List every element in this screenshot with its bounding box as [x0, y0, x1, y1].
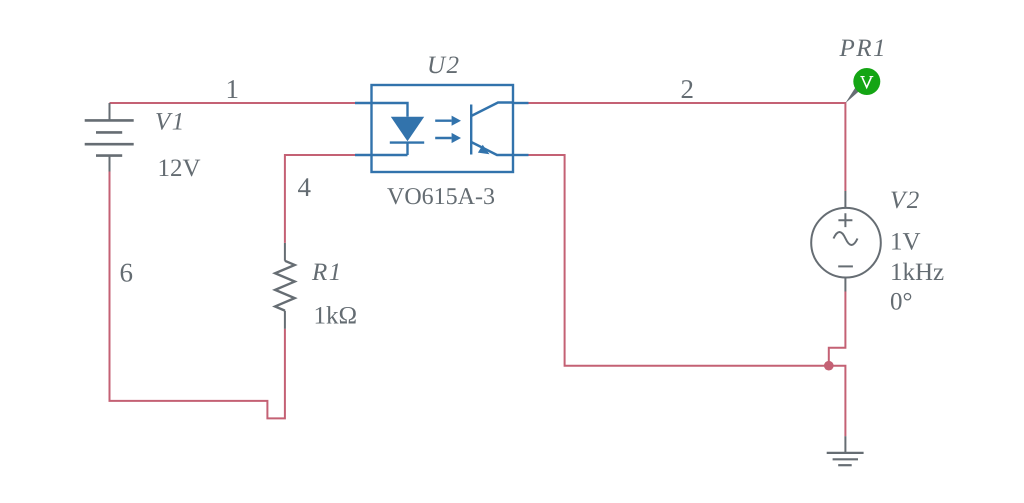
svg-text:0°: 0°	[890, 289, 913, 316]
svg-text:V2: V2	[890, 187, 921, 214]
U2 phototransistor collector	[471, 103, 513, 117]
source V2 bottom stem	[844, 278, 846, 292]
wire net 4 (R1 top to U2 pin 4)	[285, 155, 355, 243]
svg-text:1kHz: 1kHz	[890, 259, 944, 286]
svg-text:6: 6	[120, 258, 134, 288]
junction	[824, 361, 834, 371]
U2 light arrow 1	[435, 116, 461, 126]
svg-text:4: 4	[298, 172, 312, 202]
source V2 top stem	[844, 191, 846, 209]
svg-text:1kΩ: 1kΩ	[314, 303, 358, 330]
ground	[827, 436, 864, 465]
U2 LED anode lead	[372, 103, 408, 117]
svg-text:R1: R1	[311, 259, 343, 286]
U2 LED cathode bar	[390, 141, 424, 143]
svg-text:VO615A-3: VO615A-3	[387, 184, 495, 210]
wire net 0 (U2 emitter pin to junction)	[529, 155, 829, 366]
V2 minus sign	[838, 265, 853, 267]
U2 LED triangle	[391, 117, 424, 141]
svg-text:12V: 12V	[158, 155, 201, 182]
resistor R1	[275, 243, 295, 329]
svg-text:PR1: PR1	[839, 35, 888, 62]
svg-text:U2: U2	[427, 52, 461, 79]
svg-text:1V: 1V	[890, 229, 921, 256]
U2 phototransistor base bar	[470, 105, 472, 155]
U2 pin stubs	[355, 103, 529, 155]
svg-text:V1: V1	[155, 109, 186, 136]
wire net 0 (junction to ground)	[829, 366, 846, 437]
wire net 1 (battery V1 top to U2 pin 1)	[110, 102, 356, 104]
U2 light arrow 2	[435, 133, 461, 143]
wire net 6 (battery V1 bottom to R1 bottom)	[110, 172, 285, 419]
source V2 circle	[811, 208, 881, 278]
probe PR1 head	[853, 68, 880, 95]
optocoupler U2 box	[372, 85, 514, 172]
svg-text:1: 1	[226, 74, 240, 104]
probe PR1 needle	[845, 86, 860, 103]
probe PR1 V letter	[860, 77, 873, 88]
V2 sine wave	[834, 232, 858, 245]
wire net 0 (V2 bottom jog to junction)	[829, 292, 846, 366]
U2 LED cathode lead	[372, 143, 408, 155]
V2 plus sign	[838, 213, 852, 227]
U2 phototransistor emitter	[471, 142, 513, 155]
U2 emitter arrowhead	[478, 145, 490, 154]
svg-text:2: 2	[681, 74, 695, 104]
wire net 2 (U2 pin 2 to probe corner and V2 top)	[529, 103, 846, 191]
battery V1 symbol	[85, 103, 134, 172]
